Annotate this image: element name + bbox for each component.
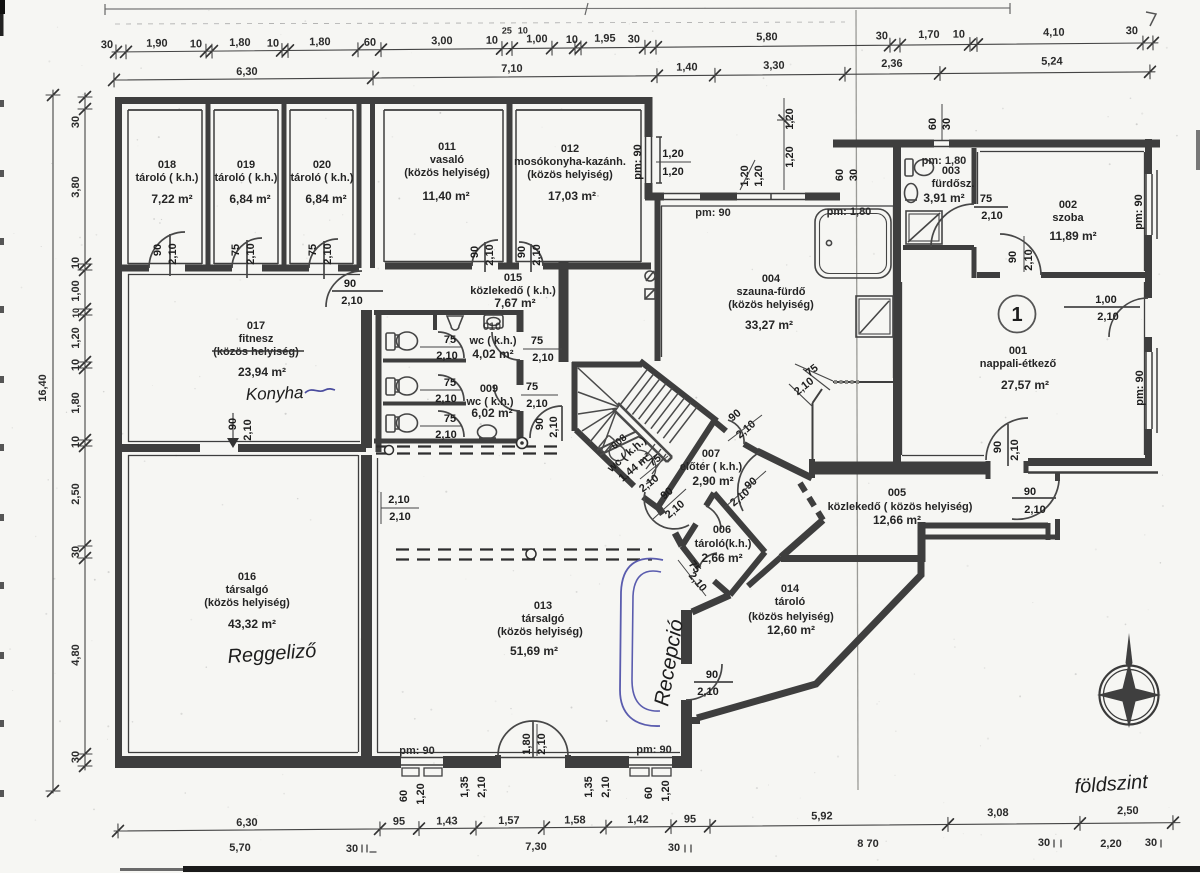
svg-text:6,30: 6,30 bbox=[236, 817, 258, 829]
svg-text:vasaló: vasaló bbox=[430, 154, 465, 166]
right edge mark bbox=[1196, 130, 1200, 170]
svg-text:75: 75 bbox=[444, 413, 456, 425]
svg-text:4,02 m²: 4,02 m² bbox=[472, 347, 513, 361]
door 001 east exterior bbox=[1064, 298, 1148, 337]
right top dims rotated bbox=[927, 104, 953, 140]
svg-text:5,24: 5,24 bbox=[1041, 56, 1063, 68]
006 SE wall bbox=[730, 552, 765, 595]
wall 017|016 with door opening bbox=[115, 444, 366, 452]
stair winder fan treads bbox=[578, 368, 619, 452]
faint top dashed guide bbox=[115, 22, 845, 24]
svg-text:2,36: 2,36 bbox=[881, 58, 903, 70]
sauna top dims rotated bbox=[739, 98, 860, 190]
svg-text:wc ( k.h.): wc ( k.h.) bbox=[468, 335, 516, 347]
shower 003 bbox=[906, 211, 942, 244]
door wc stall 2 bbox=[438, 375, 464, 401]
wc stall partition 1 bbox=[383, 359, 466, 363]
svg-text:90: 90 bbox=[1024, 486, 1036, 498]
svg-text:2,90 m²: 2,90 m² bbox=[692, 474, 733, 488]
svg-text:30: 30 bbox=[941, 118, 953, 130]
013 east wall with door to 014 bbox=[681, 610, 692, 762]
svg-text:2,10: 2,10 bbox=[167, 243, 179, 264]
strikethrough on 017 subtitle bbox=[212, 350, 304, 352]
door 003 bbox=[931, 204, 1008, 247]
svg-text:10: 10 bbox=[70, 359, 82, 371]
svg-text:011: 011 bbox=[438, 141, 456, 153]
wall 006|014 outer diagonal bbox=[748, 557, 781, 586]
007 NE door dims bbox=[727, 407, 762, 441]
svg-text:1,42: 1,42 bbox=[627, 814, 649, 826]
006 SW wall with door gap bbox=[682, 546, 730, 595]
svg-text:3,91 m²: 3,91 m² bbox=[923, 191, 964, 205]
svg-text:75: 75 bbox=[230, 244, 242, 256]
svg-text:90: 90 bbox=[344, 278, 356, 290]
svg-text:szauna-fürdő: szauna-fürdő bbox=[736, 286, 805, 298]
svg-text:17,03 m²: 17,03 m² bbox=[548, 189, 596, 203]
svg-text:3,80: 3,80 bbox=[70, 176, 82, 197]
toilet wc1 bbox=[386, 332, 418, 350]
svg-text:6,84 m²: 6,84 m² bbox=[229, 192, 270, 206]
door 001 to 005 bbox=[986, 418, 1028, 466]
svg-text:fitnesz: fitnesz bbox=[239, 333, 274, 345]
svg-text:51,69 m²: 51,69 m² bbox=[510, 644, 558, 658]
entrance door dims rotated bbox=[521, 724, 548, 756]
svg-text:pm: 90: pm: 90 bbox=[632, 144, 644, 179]
svg-text:1: 1 bbox=[1011, 304, 1022, 326]
svg-text:2,10: 2,10 bbox=[697, 686, 718, 698]
bathtub 004 bbox=[815, 209, 891, 278]
stair enclosure SW diagonal wall with door gap bbox=[576, 430, 658, 508]
svg-text:(közös helyiség): (közös helyiség) bbox=[497, 626, 583, 638]
svg-text:2,10: 2,10 bbox=[484, 244, 496, 265]
svg-text:10: 10 bbox=[190, 38, 202, 50]
bottom dimension row bbox=[112, 805, 1180, 838]
svg-text:pm: 90: pm: 90 bbox=[399, 745, 434, 757]
svg-text:1,35: 1,35 bbox=[583, 776, 595, 797]
svg-text:2,10: 2,10 bbox=[341, 295, 362, 307]
stair treads upper flight bbox=[620, 369, 697, 443]
blue reception desk sketch bbox=[620, 558, 663, 726]
svg-text:90: 90 bbox=[227, 418, 239, 430]
svg-text:2,20: 2,20 bbox=[1100, 838, 1121, 850]
svg-text:1,20: 1,20 bbox=[662, 148, 683, 160]
bottom window sills bbox=[402, 768, 671, 776]
svg-text:pm: 90: pm: 90 bbox=[1134, 370, 1146, 405]
svg-text:018: 018 bbox=[158, 159, 176, 171]
svg-text:015: 015 bbox=[504, 272, 522, 284]
urinal bbox=[447, 316, 463, 330]
svg-text:1,40: 1,40 bbox=[676, 61, 698, 73]
006 NW wall with door gap bbox=[682, 493, 714, 546]
stair enclosure top wall bbox=[572, 362, 642, 368]
svg-text:tároló ( k.h.): tároló ( k.h.) bbox=[136, 172, 199, 184]
sauna west wall bbox=[655, 196, 661, 361]
toilet wc3 bbox=[386, 414, 418, 432]
svg-text:75: 75 bbox=[531, 335, 543, 347]
svg-text:5,92: 5,92 bbox=[811, 810, 833, 822]
svg-text:009: 009 bbox=[480, 383, 498, 395]
door 001 to 002 bbox=[1000, 234, 1041, 275]
door 015 to 017 bbox=[326, 271, 383, 307]
dashed opening band A bbox=[376, 447, 563, 454]
door corridor to wc 009 bbox=[494, 385, 520, 411]
svg-text:001: 001 bbox=[1009, 345, 1027, 357]
svg-text:1,20: 1,20 bbox=[784, 146, 796, 167]
svg-text:1,20: 1,20 bbox=[753, 165, 765, 186]
svg-text:95: 95 bbox=[393, 816, 405, 828]
svg-text:30: 30 bbox=[876, 30, 888, 42]
svg-text:4,80: 4,80 bbox=[70, 644, 82, 665]
corridor door dims rotated bbox=[534, 416, 560, 437]
svg-text:1,43: 1,43 bbox=[436, 815, 458, 827]
svg-text:012: 012 bbox=[561, 143, 579, 155]
svg-text:pm: 90: pm: 90 bbox=[636, 744, 671, 756]
door 007 NE bbox=[728, 420, 744, 444]
door 007 to 005 bbox=[738, 452, 760, 511]
door 011 bbox=[472, 240, 498, 272]
toilet wc2 bbox=[386, 377, 418, 395]
002 door dims rotated bbox=[1007, 236, 1035, 272]
svg-text:1,00: 1,00 bbox=[1095, 294, 1116, 306]
bottom black scan line bbox=[183, 866, 1200, 872]
svg-text:2,66 m²: 2,66 m² bbox=[701, 551, 742, 565]
svg-text:(közös helyiség): (közös helyiség) bbox=[213, 346, 299, 358]
door 019 bbox=[232, 238, 262, 278]
svg-text:007: 007 bbox=[702, 448, 720, 460]
svg-text:2,10: 2,10 bbox=[322, 243, 334, 264]
svg-text:12,60 m²: 12,60 m² bbox=[767, 623, 815, 637]
svg-text:013: 013 bbox=[534, 600, 552, 612]
door 018 bbox=[149, 232, 185, 276]
wall right of 012 with window bbox=[645, 97, 653, 199]
window dims 012 bbox=[656, 148, 691, 178]
shower 004 bbox=[856, 296, 893, 337]
svg-text:60: 60 bbox=[364, 37, 376, 49]
svg-text:1,20: 1,20 bbox=[739, 165, 751, 186]
svg-text:2,50: 2,50 bbox=[1117, 805, 1139, 817]
lower flight treads bbox=[640, 444, 666, 474]
wc 008 door arc bbox=[637, 450, 656, 484]
svg-text:10: 10 bbox=[267, 38, 279, 50]
bottom windows thin lines bbox=[401, 758, 672, 766]
svg-text:60: 60 bbox=[643, 787, 655, 799]
interior side plaster lines bbox=[128, 110, 641, 264]
partition 018|019 bbox=[206, 104, 211, 268]
stair enclosure SE wall bbox=[658, 421, 714, 507]
svg-text:(közös helyiség): (közös helyiség) bbox=[404, 167, 490, 179]
svg-text:2,10: 2,10 bbox=[435, 429, 456, 441]
wc 008 dim line bbox=[640, 456, 668, 479]
003 door dims bbox=[980, 193, 1003, 222]
svg-text:75: 75 bbox=[307, 244, 319, 256]
stair enclosure west wall bbox=[572, 362, 578, 431]
011/012 bottom wall with door openings bbox=[385, 263, 651, 270]
svg-text:1,57: 1,57 bbox=[498, 815, 520, 827]
interior plaster box 016 bbox=[128, 455, 359, 753]
svg-text:szoba: szoba bbox=[1052, 212, 1084, 224]
basin wc009 bbox=[478, 425, 497, 439]
wc block west wall bbox=[376, 310, 382, 452]
door wc stall 1 bbox=[438, 332, 464, 358]
006 S to 013 wall diagonal bbox=[692, 595, 730, 612]
svg-text:010: 010 bbox=[483, 321, 501, 333]
svg-text:7,30: 7,30 bbox=[525, 841, 546, 853]
compass rose bbox=[1097, 633, 1161, 728]
svg-text:30: 30 bbox=[1145, 837, 1157, 849]
svg-text:8 70: 8 70 bbox=[857, 838, 878, 850]
left dimension column outer 16.40 bbox=[37, 90, 60, 797]
svg-text:(közös helyiség): (közös helyiség) bbox=[527, 169, 613, 181]
svg-text:tároló ( k.h.): tároló ( k.h.) bbox=[215, 172, 278, 184]
svg-text:mosókonyha-kazánh.: mosókonyha-kazánh. bbox=[514, 156, 626, 168]
006 SW door dims bbox=[678, 559, 709, 596]
svg-text:7,67 m²: 7,67 m² bbox=[494, 296, 535, 310]
svg-text:90: 90 bbox=[152, 244, 164, 256]
svg-text:43,32 m²: 43,32 m² bbox=[228, 617, 276, 631]
svg-text:2,10: 2,10 bbox=[526, 398, 547, 410]
svg-text:1,00: 1,00 bbox=[70, 280, 82, 301]
meter circle symbol 004 wall bbox=[645, 271, 655, 281]
door dims 016|017 rotated bbox=[227, 418, 254, 441]
svg-text:(közös helyiség): (közös helyiség) bbox=[728, 299, 814, 311]
svg-text:95: 95 bbox=[684, 813, 696, 825]
stairs door dims bbox=[653, 485, 687, 521]
partition 011|012 bbox=[507, 104, 513, 266]
svg-text:fürdősz.: fürdősz. bbox=[932, 178, 975, 190]
door 012 bbox=[519, 242, 543, 272]
svg-text:90: 90 bbox=[516, 246, 528, 258]
urinal nook stub bbox=[433, 312, 437, 330]
svg-text:2,10: 2,10 bbox=[1009, 439, 1021, 460]
svg-text:10: 10 bbox=[566, 34, 578, 46]
svg-text:1,20: 1,20 bbox=[70, 327, 82, 348]
svg-text:10: 10 bbox=[70, 436, 82, 448]
svg-text:2,10: 2,10 bbox=[536, 733, 548, 754]
wc stall door dims bbox=[420, 334, 462, 441]
svg-text:előtér ( k.h.): előtér ( k.h.) bbox=[680, 461, 743, 473]
svg-text:90: 90 bbox=[469, 246, 481, 258]
interior plaster lines 013 bbox=[377, 458, 680, 753]
svg-text:004: 004 bbox=[762, 273, 781, 285]
sink wc010 bbox=[484, 315, 503, 328]
svg-text:30: 30 bbox=[628, 33, 640, 45]
right block east wall with windows and door bbox=[1145, 139, 1152, 466]
svg-text:5,70: 5,70 bbox=[229, 842, 250, 854]
toilet 008 under stairs bbox=[598, 435, 629, 464]
door 013 to 014 bbox=[686, 664, 733, 700]
svg-text:016: 016 bbox=[238, 571, 256, 583]
svg-text:60: 60 bbox=[398, 790, 410, 802]
014 door dims bbox=[697, 669, 718, 698]
svg-text:005: 005 bbox=[888, 487, 906, 499]
wc stall partition 2 bbox=[383, 402, 466, 406]
svg-text:pm: 90: pm: 90 bbox=[1133, 194, 1145, 229]
014 NE/SE diagonal boundary bbox=[697, 559, 921, 718]
001 bottom door dims rotated bbox=[992, 439, 1021, 460]
svg-text:1,95: 1,95 bbox=[594, 33, 616, 45]
svg-text:1,90: 1,90 bbox=[146, 38, 168, 50]
svg-text:12,66 m²: 12,66 m² bbox=[873, 513, 921, 527]
door arrow 016|017 bbox=[232, 413, 234, 438]
door wc stall 3 bbox=[438, 411, 464, 437]
door stairs/007 to 013 bbox=[644, 492, 689, 529]
meter square symbol 004 wall bbox=[645, 289, 655, 299]
svg-text:1,80: 1,80 bbox=[229, 37, 251, 49]
entrance door posts 013 bbox=[498, 755, 568, 768]
sauna cabin top thin wall with sliding door bbox=[833, 381, 897, 383]
svg-text:3,00: 3,00 bbox=[431, 35, 453, 47]
sauna cabin west thin wall bbox=[812, 403, 814, 463]
svg-text:10: 10 bbox=[953, 29, 965, 41]
svg-text:2,10: 2,10 bbox=[436, 350, 457, 362]
svg-text:75: 75 bbox=[526, 381, 538, 393]
handwritten Konyha blue bbox=[245, 383, 335, 404]
svg-text:10: 10 bbox=[70, 257, 82, 269]
svg-text:Konyha: Konyha bbox=[245, 383, 303, 404]
entrance threshold bbox=[498, 757, 568, 759]
entrance double door 013 right bbox=[533, 721, 568, 756]
svg-text:30: 30 bbox=[70, 751, 82, 763]
outer wall: left side bbox=[115, 97, 122, 766]
svg-text:2,10: 2,10 bbox=[388, 494, 409, 506]
svg-text:pm: 1,80: pm: 1,80 bbox=[922, 155, 967, 167]
003 east wall with door gap bbox=[972, 148, 977, 278]
svg-text:33,27 m²: 33,27 m² bbox=[745, 318, 793, 332]
svg-text:tároló: tároló bbox=[775, 596, 806, 608]
door 004 sauna callout bbox=[789, 364, 833, 407]
svg-text:2,10: 2,10 bbox=[435, 393, 456, 405]
door 020 bbox=[309, 239, 338, 279]
svg-text:90: 90 bbox=[1007, 251, 1019, 263]
junction dot wc corner bbox=[517, 438, 528, 449]
003 bottom wall bbox=[903, 245, 974, 250]
svg-text:30: 30 bbox=[101, 39, 113, 51]
svg-text:30: 30 bbox=[346, 843, 358, 855]
svg-text:30: 30 bbox=[668, 842, 680, 854]
svg-text:27,57 m²: 27,57 m² bbox=[1001, 378, 1049, 392]
corridor 005 top wall / 001 bottom wall with door bbox=[812, 462, 986, 475]
storage bottom wall with door openings bbox=[122, 265, 359, 272]
007 E door dims bbox=[724, 471, 766, 509]
svg-text:1,80: 1,80 bbox=[521, 733, 533, 754]
sauna cabin chamfer bbox=[813, 389, 823, 403]
svg-text:2,10: 2,10 bbox=[600, 776, 612, 797]
svg-text:7,10: 7,10 bbox=[501, 63, 523, 75]
svg-text:tároló ( k.h.): tároló ( k.h.) bbox=[291, 172, 354, 184]
svg-text:10: 10 bbox=[486, 35, 498, 47]
svg-text:002: 002 bbox=[1059, 199, 1077, 211]
door corridor to wc 010 bbox=[492, 332, 520, 360]
left edge binder marks bbox=[0, 100, 4, 797]
svg-text:014: 014 bbox=[781, 583, 800, 595]
door dims storage bbox=[152, 243, 543, 265]
005 west diagonal wall bbox=[781, 520, 823, 557]
room 008 label rotated bbox=[605, 432, 664, 495]
dashed opening band B bbox=[396, 550, 652, 560]
east windows thin bbox=[1146, 170, 1157, 433]
stair enclosure NE diagonal wall bbox=[640, 361, 717, 421]
interior finish lines sauna bbox=[661, 206, 894, 378]
svg-text:11,40 m²: 11,40 m² bbox=[422, 189, 469, 203]
svg-text:90: 90 bbox=[992, 441, 1004, 453]
svg-text:pm: 1,80: pm: 1,80 bbox=[827, 206, 872, 218]
svg-text:3,30: 3,30 bbox=[763, 60, 785, 72]
svg-text:75: 75 bbox=[444, 377, 456, 389]
svg-text:30: 30 bbox=[70, 546, 82, 558]
007 NE boundary walls with door opening bbox=[714, 421, 758, 452]
svg-text:6,30: 6,30 bbox=[236, 66, 258, 78]
interior finish lines right block bbox=[902, 152, 1145, 456]
paper edge mark top-left bbox=[0, 0, 5, 14]
spine wall x=366 (017/016 | corridor/013) bbox=[361, 310, 372, 757]
unit number circle bbox=[999, 296, 1036, 333]
svg-text:30: 30 bbox=[70, 116, 82, 128]
svg-text:90: 90 bbox=[534, 418, 546, 430]
node circle band A bbox=[385, 446, 394, 455]
shaft wall left of 011 bbox=[370, 97, 375, 268]
sauna door dims rotated bbox=[792, 362, 821, 398]
svg-text:1,20: 1,20 bbox=[660, 780, 672, 801]
svg-text:4,10: 4,10 bbox=[1043, 27, 1065, 39]
svg-text:1,35: 1,35 bbox=[459, 776, 471, 797]
005 west dashed opening bbox=[800, 483, 823, 520]
svg-text:1,58: 1,58 bbox=[564, 814, 586, 826]
svg-text:1,20: 1,20 bbox=[415, 783, 427, 804]
left dimension column inner bbox=[70, 92, 92, 772]
interior top plaster lines storage/011/012 bbox=[128, 109, 641, 111]
corridor 005 bottom walls bbox=[918, 523, 1048, 529]
svg-text:6,84 m²: 6,84 m² bbox=[305, 192, 346, 206]
partition 019|020 bbox=[282, 104, 287, 268]
svg-text:3,08: 3,08 bbox=[987, 807, 1009, 819]
basin 003 bbox=[905, 184, 918, 203]
svg-text:1,80: 1,80 bbox=[70, 392, 82, 413]
stair central rail double line bbox=[613, 403, 672, 462]
svg-text:2,10: 2,10 bbox=[531, 244, 543, 265]
svg-text:2,10: 2,10 bbox=[1023, 249, 1035, 270]
sauna top windows thin bbox=[664, 194, 805, 201]
toilet 003 bbox=[905, 159, 934, 176]
svg-text:11,89 m²: 11,89 m² bbox=[1049, 229, 1096, 243]
svg-text:60: 60 bbox=[834, 169, 846, 181]
svg-text:10: 10 bbox=[71, 308, 81, 318]
002 bottom wall with door bbox=[977, 272, 1148, 278]
pen tick top right bbox=[1146, 12, 1156, 26]
svg-text:017: 017 bbox=[247, 320, 265, 332]
svg-text:nappali-étkező: nappali-étkező bbox=[980, 358, 1057, 370]
bottom exterior dims rotated bbox=[398, 776, 672, 804]
sauna cabin bottom thin wall bbox=[812, 462, 897, 464]
svg-text:1,80: 1,80 bbox=[309, 36, 331, 48]
svg-text:2,50: 2,50 bbox=[70, 483, 82, 504]
svg-text:16,40: 16,40 bbox=[37, 374, 49, 402]
svg-text:2,10: 2,10 bbox=[389, 511, 410, 523]
fold line vertical bbox=[856, 10, 858, 790]
svg-text:23,94 m²: 23,94 m² bbox=[238, 365, 286, 379]
interior plaster box 017 bbox=[128, 274, 360, 442]
sauna east / right block west wall bbox=[893, 143, 901, 462]
door 015 lower corridor bbox=[530, 406, 562, 441]
svg-text:pm: 90: pm: 90 bbox=[695, 207, 730, 219]
svg-text:2,10: 2,10 bbox=[532, 352, 553, 364]
svg-text:tároló(k.h.): tároló(k.h.) bbox=[695, 538, 752, 550]
corridor|014 vertical bbox=[918, 522, 926, 562]
svg-text:1,70: 1,70 bbox=[918, 29, 940, 41]
top frame line bbox=[105, 8, 1010, 9]
016|013 opening dims bbox=[381, 492, 419, 524]
wc block right wall with door openings bbox=[517, 310, 524, 445]
svg-text:1,20: 1,20 bbox=[662, 166, 683, 178]
